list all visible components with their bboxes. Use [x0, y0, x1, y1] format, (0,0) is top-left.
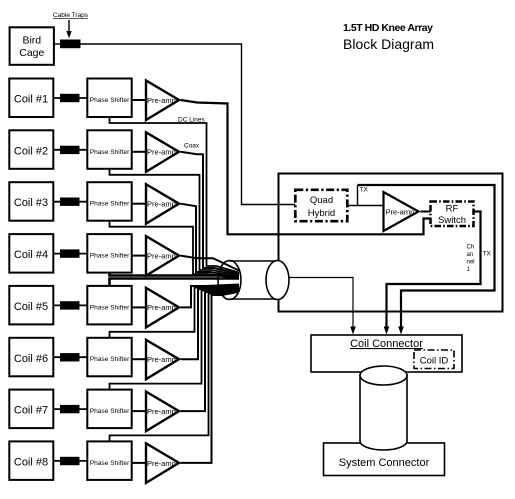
- DC line row 6: [110, 286, 240, 338]
- wire coil 8 to phase shifter: [54, 460, 87, 462]
- wire phase shifter to pre-amp row 6: [132, 358, 147, 360]
- svg-text:Phase Shifter: Phase Shifter: [90, 408, 130, 415]
- svg-text:Quad: Quad: [310, 195, 333, 206]
- cable trap row 2: [60, 146, 80, 154]
- svg-text:Coil #1: Coil #1: [14, 94, 48, 106]
- TX wire to coil connector: [358, 185, 495, 328]
- svg-text:Pre-amp: Pre-amp: [147, 148, 176, 157]
- Coil #7 box: [9, 390, 53, 429]
- TX wire arrowhead: [398, 327, 404, 335]
- pre-amp A6: [146, 340, 179, 379]
- svg-text:nel: nel: [467, 260, 475, 266]
- wire bird cage to quad hybrid: [81, 44, 296, 205]
- svg-text:Pre-amp: Pre-amp: [147, 407, 176, 416]
- Phase Shifter box row 2: [87, 130, 131, 169]
- Coil #1 box: [9, 79, 53, 118]
- coax wire row 8: [181, 292, 240, 463]
- pre-amp A4: [146, 236, 179, 276]
- DC line row 3: [110, 221, 240, 279]
- wire quad hybrid to pre-amp U2: [348, 205, 384, 207]
- svg-text:Coil #6: Coil #6: [14, 353, 48, 365]
- RF wire arrowhead: [384, 327, 390, 335]
- cable trap row 7: [60, 405, 80, 413]
- connector barrel body: [360, 375, 407, 451]
- svg-text:RF: RF: [446, 204, 459, 215]
- pre-amp A1: [146, 81, 179, 121]
- wire phase shifter to pre-amp row 8: [132, 462, 147, 464]
- svg-text:Phase Shifter: Phase Shifter: [90, 149, 130, 156]
- Phase Shifter box row 6: [87, 338, 131, 377]
- DC line row 5 (thick into bundle): [110, 279, 240, 286]
- Phase Shifter box row 3: [87, 182, 131, 221]
- svg-text:Cable Traps: Cable Traps: [53, 12, 89, 19]
- cable trap row 1: [60, 94, 80, 102]
- wire phase shifter to pre-amp row 5: [132, 306, 147, 308]
- pre-amp A3: [146, 184, 179, 224]
- wire coil 1 to phase shifter: [54, 97, 87, 99]
- svg-text:Coil #5: Coil #5: [14, 301, 48, 313]
- pre-amp A5: [146, 288, 179, 328]
- Bird Cage box: [10, 27, 54, 65]
- Coil #3 box: [9, 182, 53, 221]
- coax wire row 1 (to RF switch): [181, 100, 431, 234]
- svg-text:Pre-amp: Pre-amp: [147, 200, 176, 209]
- coax wire row 5: [181, 285, 240, 308]
- Coil #2 box: [9, 130, 53, 169]
- svg-text:Switch: Switch: [438, 215, 466, 226]
- wire phase shifter to pre-amp row 4: [132, 255, 147, 257]
- pre-amp A2: [146, 132, 179, 172]
- Phase Shifter box row 8: [87, 441, 131, 480]
- quad hybrid U1: [295, 190, 347, 221]
- coax wire row 7: [181, 289, 240, 411]
- coil connector box: [311, 335, 462, 372]
- cable trap row 6: [60, 353, 80, 361]
- wire phase shifter to pre-amp row 2: [132, 151, 147, 153]
- svg-text:Ch: Ch: [467, 245, 475, 251]
- svg-text:System Connector: System Connector: [339, 457, 430, 469]
- svg-text:Phase Shifter: Phase Shifter: [90, 253, 130, 260]
- svg-text:Coil #7: Coil #7: [14, 405, 48, 417]
- wire coil 2 to phase shifter: [54, 149, 87, 151]
- cable trap row 3: [60, 198, 80, 206]
- svg-text:an: an: [467, 252, 474, 258]
- system enclosure box: [279, 174, 503, 312]
- Phase Shifter box row 1: [87, 79, 131, 118]
- pre-amp A7: [146, 392, 179, 432]
- svg-text:Phase Shifter: Phase Shifter: [90, 460, 130, 467]
- wire bird cage to trap: [54, 43, 60, 45]
- svg-text:TX: TX: [360, 187, 369, 194]
- pre-amp A8: [146, 443, 179, 483]
- svg-text:Hybrid: Hybrid: [308, 208, 335, 219]
- svg-text:1.5T HD Knee Array: 1.5T HD Knee Array: [343, 22, 433, 34]
- wire coil 4 to phase shifter: [54, 253, 87, 255]
- svg-text:Pre-amp: Pre-amp: [147, 303, 176, 312]
- DC line row 4 (thick into bundle): [110, 273, 240, 276]
- Phase Shifter box row 5: [87, 286, 131, 325]
- cable trap row 5: [60, 301, 80, 309]
- svg-text:Pre-amp: Pre-amp: [147, 459, 176, 468]
- cable bundle left ellipse: [218, 261, 241, 300]
- connector barrel top ellipse: [360, 366, 407, 385]
- wire coil 5 to phase shifter: [54, 304, 87, 306]
- Phase Shifter box row 7: [87, 390, 131, 429]
- coax wire row 2: [181, 152, 240, 274]
- wire coil 6 to phase shifter: [54, 356, 87, 358]
- cable trap row 4: [60, 249, 80, 257]
- svg-text:Phase Shifter: Phase Shifter: [90, 356, 130, 363]
- wire phase shifter to pre-amp row 1: [132, 99, 147, 101]
- Coil #8 box: [9, 441, 53, 480]
- svg-text:Coil Connector: Coil Connector: [350, 338, 423, 350]
- TX junction stub: [357, 185, 359, 206]
- svg-text:Phase Shifter: Phase Shifter: [90, 201, 130, 208]
- RF switch output wire to coil connector: [387, 212, 481, 329]
- wire cable bundle to coil connector: [289, 278, 353, 329]
- svg-text:TX: TX: [483, 251, 492, 258]
- Coil #5 box: [9, 286, 53, 325]
- Coil #4 box: [9, 234, 53, 273]
- RF switch U3: [431, 202, 474, 227]
- svg-text:Pre-amp: Pre-amp: [386, 207, 415, 216]
- DC line row 7: [110, 288, 240, 389]
- DC line row 8: [110, 291, 240, 442]
- svg-text:Pre-amp: Pre-amp: [147, 251, 176, 260]
- svg-text:Coax: Coax: [184, 143, 200, 150]
- svg-text:Phase Shifter: Phase Shifter: [90, 304, 130, 311]
- cable trap on bird cage line: [60, 40, 81, 49]
- channel 1 label: [467, 245, 475, 274]
- Coil #6 box: [9, 338, 53, 377]
- svg-text:Cage: Cage: [19, 47, 44, 59]
- wire coil 3 to phase shifter: [54, 201, 87, 203]
- cable bundle cylinder body: [230, 261, 290, 300]
- pre-amp U2: [384, 192, 419, 231]
- coil ID box: [414, 350, 454, 369]
- DC line row 1: [110, 117, 240, 273]
- svg-text:Phase Shifter: Phase Shifter: [90, 97, 130, 104]
- coax wire row 3: [181, 204, 240, 277]
- wire pre-amp U2 to RF switch: [421, 211, 431, 213]
- svg-text:Bird: Bird: [22, 35, 41, 47]
- cable traps pointer arrow: [66, 20, 71, 38]
- wire coil 7 to phase shifter: [54, 408, 87, 410]
- wire phase shifter to pre-amp row 3: [132, 203, 147, 205]
- svg-text:Coil #3: Coil #3: [14, 197, 48, 209]
- svg-text:Pre-amp: Pre-amp: [147, 96, 176, 105]
- svg-text:Coil #2: Coil #2: [14, 145, 48, 157]
- svg-text:Coil ID: Coil ID: [420, 356, 449, 367]
- DC line row 2: [110, 169, 240, 276]
- svg-text:Coil #4: Coil #4: [14, 249, 48, 261]
- svg-text:Pre-amp: Pre-amp: [147, 355, 176, 364]
- coax wire row 6: [181, 287, 240, 359]
- cable trap row 8: [60, 457, 80, 465]
- svg-text:Block Diagram: Block Diagram: [343, 36, 434, 52]
- wire phase shifter to pre-amp row 7: [132, 410, 147, 412]
- svg-text:Coil #8: Coil #8: [14, 456, 48, 468]
- Phase Shifter box row 4: [87, 234, 131, 273]
- cable wire arrowhead: [350, 327, 356, 335]
- coax wire row 4: [181, 256, 240, 271]
- system connector box: [324, 443, 445, 476]
